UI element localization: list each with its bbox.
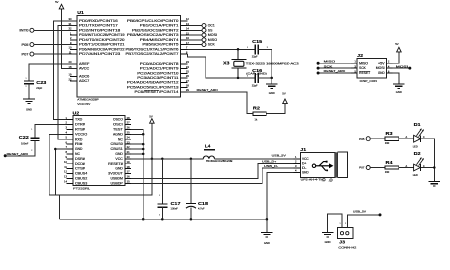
svg-text:MISO: MISO: [208, 38, 218, 42]
svg-text:USBDP: USBDP: [111, 181, 124, 185]
wire U1 PD0/RXD to U2 TXD: [54, 21, 78, 120]
junction C18 top: [190, 158, 193, 161]
svg-text:D+: D+: [302, 161, 307, 165]
wire R4 to D2 anode: [399, 167, 414, 169]
svg-text:RESET: RESET: [359, 71, 370, 75]
junction AGND: [142, 133, 145, 136]
terminal P05 (right): [359, 137, 370, 141]
svg-text:20: 20: [127, 155, 130, 159]
svg-text:17: 17: [127, 170, 130, 174]
svg-text:INT0: INT0: [19, 29, 28, 33]
svg-text:28: 28: [127, 116, 130, 120]
svg-text:VCC: VCC: [115, 157, 123, 161]
connector J3 CONN-H2: [338, 223, 357, 250]
svg-text:PB6/TOSC1/XTAL1/PCINT6: PB6/TOSC1/XTAL1/PCINT6: [126, 47, 179, 51]
svg-text:PB1/OC1A/PCINT1: PB1/OC1A/PCINT1: [140, 24, 179, 28]
wire C22 to RESET_ARD net: [5, 141, 35, 156]
capacitor C17: [157, 159, 181, 219]
svg-text:USB_D+: USB_D+: [262, 159, 277, 163]
svg-text:CBUS1: CBUS1: [111, 147, 123, 151]
svg-text:C18: C18: [198, 201, 209, 206]
USB icon (J1): [312, 161, 333, 172]
wire J3 pin1 to ground: [328, 214, 342, 233]
svg-text:22: 22: [69, 77, 72, 81]
svg-text:GND: GND: [396, 90, 402, 94]
svg-text:J2: J2: [357, 53, 364, 58]
svg-text:12: 12: [186, 17, 189, 21]
svg-text:18: 18: [127, 165, 130, 169]
svg-text:P07: P07: [359, 166, 365, 170]
svg-text:2: 2: [31, 150, 32, 152]
junction U2 GND pin7: [54, 148, 57, 151]
wire U1 to terminal MISO: [188, 39, 203, 41]
terminal MISO: [202, 38, 218, 42]
wire U1 to terminal SS: [188, 29, 203, 31]
svg-text:27: 27: [186, 79, 189, 83]
svg-text:PD3/INT1/OC2B/PCINT19: PD3/INT1/OC2B/PCINT19: [79, 33, 125, 37]
svg-text:CONN-H2: CONN-H2: [338, 246, 357, 250]
svg-text:1: 1: [25, 78, 26, 80]
svg-text:25: 25: [186, 70, 189, 74]
svg-text:2: 2: [345, 223, 346, 225]
svg-text:R4: R4: [386, 160, 394, 165]
svg-text:USB_D-: USB_D-: [264, 164, 278, 168]
terminal MOSI: [202, 33, 217, 37]
inductor L4: [203, 144, 215, 159]
resistor R3: [385, 131, 399, 145]
LED D1: [413, 122, 424, 148]
resistor R2: [253, 105, 266, 121]
wire U2 VCCIO to 5V rail: [49, 134, 152, 195]
wire LED cathode bus: [433, 139, 435, 182]
svg-text:PC2/ADC2/PCINT10: PC2/ADC2/PCINT10: [137, 71, 178, 75]
wire U2 DTR# to C22: [35, 125, 67, 139]
svg-text:GND: GND: [378, 71, 385, 75]
node USB_5V (J3): [379, 213, 382, 216]
svg-text:ICSP_CON: ICSP_CON: [360, 79, 377, 83]
svg-text:MISO: MISO: [324, 59, 336, 63]
wire ground rail: [59, 218, 267, 220]
svg-text:PB0/ICP1/CLKO/PCINT0: PB0/ICP1/CLKO/PCINT0: [127, 19, 179, 23]
wire C15 to crystal ground: [258, 49, 272, 78]
wire U1 PD1/TXD to U2 RXD: [58, 26, 77, 140]
ground (main rail): [261, 232, 273, 245]
svg-text:PC6/RESET/PCINT14: PC6/RESET/PCINT14: [135, 90, 179, 94]
svg-text:26: 26: [186, 74, 189, 78]
svg-text:ATMEGA328P: ATMEGA328P: [77, 98, 98, 102]
svg-text:PC5/ADC5/SCL/PCINT13: PC5/ADC5/SCL/PCINT13: [127, 85, 179, 89]
terminal OC1: [202, 24, 215, 28]
svg-text:4.7uF: 4.7uF: [198, 207, 205, 211]
svg-text:SCK: SCK: [359, 66, 366, 70]
svg-text:PD4/T0/XCK/PCINT20: PD4/T0/XCK/PCINT20: [79, 38, 125, 42]
ground (J2): [393, 84, 405, 94]
svg-text:RI#: RI#: [75, 142, 83, 146]
svg-text:U1: U1: [77, 10, 84, 15]
wire P05 to U1 PD5: [34, 44, 77, 46]
junction LED cathodes: [433, 166, 436, 169]
svg-text:GND: GND: [115, 152, 123, 156]
wire C16 to crystal ground: [258, 77, 272, 79]
svg-text:SCK: SCK: [208, 43, 216, 47]
svg-text:ADC7: ADC7: [79, 79, 90, 83]
terminal P05: [22, 43, 34, 47]
shield pad G2 (J1): [329, 179, 333, 183]
svg-text:AREF: AREF: [79, 62, 89, 66]
ground (crystal): [266, 84, 278, 95]
node MOSI: [408, 67, 411, 70]
svg-text:C15: C15: [252, 39, 263, 44]
svg-text:19: 19: [69, 73, 72, 77]
svg-text:24: 24: [127, 135, 130, 139]
svg-text:R3: R3: [386, 131, 394, 136]
wire P05 to R3: [370, 138, 385, 140]
svg-text:10: 10: [69, 46, 72, 50]
wire SCK net (J2): [318, 67, 351, 69]
svg-text:22pF: 22pF: [252, 84, 258, 88]
svg-text:3V3OUT: 3V3OUT: [108, 172, 123, 176]
svg-text:330: 330: [385, 141, 390, 145]
wire P07 to U1 PD7: [34, 53, 77, 55]
svg-text:VCC: VCC: [302, 157, 309, 161]
svg-text:LED: LED: [413, 173, 418, 177]
junction GND21: [142, 153, 145, 156]
svg-text:RESET#: RESET#: [108, 162, 123, 166]
svg-text:P07: P07: [22, 52, 29, 56]
svg-text:22pF: 22pF: [252, 55, 258, 59]
svg-text:10: 10: [64, 160, 67, 164]
junction XTAL1-crystal: [237, 48, 240, 51]
wire RESET_ARD net (J2): [318, 72, 351, 74]
svg-text:L4: L4: [205, 144, 211, 149]
svg-text:13: 13: [64, 175, 67, 179]
svg-text:X3: X3: [223, 60, 230, 65]
svg-text:GND: GND: [302, 170, 309, 174]
wire J3 pin2 USB_5V: [347, 215, 380, 228]
svg-text:PD7/AIN1/PCINT23: PD7/AIN1/PCINT23: [79, 52, 121, 56]
svg-text:ADC6: ADC6: [79, 75, 90, 79]
wire INT0 to U1 PD2: [34, 29, 77, 31]
svg-text:USB_5V: USB_5V: [272, 153, 286, 157]
wire U1 to terminal MOSI: [188, 34, 203, 36]
junction XTAL2-crystal: [237, 77, 240, 80]
svg-text:2: 2: [25, 86, 26, 88]
svg-text:AVCC: AVCC: [79, 67, 90, 71]
crystal X3: [223, 49, 246, 78]
wire U2 TEST/AGND/CBUS/GND bus: [131, 129, 143, 219]
junction 5V/VCC rail: [151, 158, 154, 161]
wire 5V to J2 +5V: [393, 53, 399, 63]
svg-text:14: 14: [64, 180, 67, 184]
svg-text:CTS#: CTS#: [75, 167, 85, 171]
svg-text:23: 23: [127, 140, 130, 144]
svg-text:D1: D1: [414, 122, 422, 127]
junction CBUS0: [142, 143, 145, 146]
wire MOSI net (J2): [393, 67, 410, 69]
wire J2 GND: [393, 73, 399, 84]
svg-text:J1: J1: [300, 147, 307, 152]
wire USB_5V (L4 to J1 VCC): [215, 158, 294, 160]
svg-text:PD0/RXD/PCINT16: PD0/RXD/PCINT16: [79, 19, 118, 23]
LED D2: [413, 151, 424, 177]
svg-text:15: 15: [127, 180, 130, 184]
svg-text:MOSI: MOSI: [396, 64, 409, 68]
svg-text:AGND: AGND: [113, 132, 123, 136]
svg-text:P05: P05: [359, 137, 365, 141]
svg-text:24: 24: [186, 65, 189, 69]
svg-text:TEST: TEST: [113, 128, 123, 132]
svg-text:PC4/ADC4/SDA/PCINT12: PC4/ADC4/SDA/PCINT12: [127, 81, 179, 85]
wire D2 cathode: [421, 167, 434, 169]
capacitor C18 (polarized): [186, 159, 209, 219]
wire 5V down to VCC rail: [151, 124, 153, 159]
svg-text:16: 16: [127, 175, 130, 179]
junction ground bus / rail: [142, 218, 145, 221]
wire C23 to ground: [28, 84, 30, 99]
svg-text:MOSI: MOSI: [376, 66, 385, 70]
wire VCC rail (U2 VCC to L4): [131, 158, 203, 160]
ground (C23): [23, 99, 35, 111]
svg-text:RXD: RXD: [75, 137, 83, 141]
ground (LEDs): [429, 182, 441, 186]
svg-text:1: 1: [159, 195, 160, 197]
svg-text:G: G: [322, 181, 324, 183]
svg-text:RESET_ARD: RESET_ARD: [197, 88, 218, 92]
wire 5V to R2: [266, 105, 285, 114]
svg-text:CBUS2: CBUS2: [75, 177, 87, 181]
wire XTAL2 (U1 PB7 to C16): [188, 54, 256, 78]
svg-text:C22: C22: [19, 135, 30, 140]
wire R3 to D1 anode: [399, 138, 414, 140]
svg-text:1: 1: [31, 129, 32, 131]
ground (J3): [322, 232, 334, 244]
svg-text:D2: D2: [414, 151, 422, 156]
svg-text:28: 28: [186, 84, 189, 88]
svg-text:21: 21: [127, 150, 130, 154]
svg-text:PD6/AIN0/OC0A/PCINT22: PD6/AIN0/OC0A/PCINT22: [79, 47, 125, 51]
svg-text:D-: D-: [302, 166, 306, 170]
svg-text:R2: R2: [253, 105, 261, 110]
connector J2 ICSP_CON: [351, 53, 393, 83]
junction CBUS1: [142, 148, 145, 151]
IC U1 ATMEGA328P: [69, 10, 190, 106]
svg-text:PB4/MISO/PCINT4: PB4/MISO/PCINT4: [140, 38, 179, 42]
node RESET_ARD (left): [4, 154, 7, 157]
svg-text:26: 26: [127, 126, 130, 130]
power 5V (U2 VCC): [149, 114, 154, 124]
svg-text:PC1/ADC1/PCINT9: PC1/ADC1/PCINT9: [140, 67, 179, 71]
capacitor C23: [24, 78, 47, 90]
svg-text:GND: GND: [115, 167, 123, 171]
junction crystal ground: [270, 77, 273, 80]
wire U2 GND (pin7) down: [55, 149, 66, 195]
svg-text:UP2-AH-4-TH: UP2-AH-4-TH: [301, 178, 324, 182]
wire U2 AGND stub: [131, 133, 143, 135]
wire 5V to U1 AVCC: [62, 10, 78, 69]
terminal SS: [202, 28, 212, 32]
svg-text:PD5/T1/OC0B/PCINT21: PD5/T1/OC0B/PCINT21: [79, 43, 125, 47]
svg-text:2: 2: [159, 214, 160, 216]
connector J1 USB: [293, 147, 347, 182]
wire P07 to R4: [370, 167, 385, 169]
svg-text:PB5/SCK/PCINT5: PB5/SCK/PCINT5: [142, 43, 178, 47]
svg-text:FT232RL: FT232RL: [73, 186, 90, 190]
capacitor C15: [247, 39, 269, 59]
wire J1 GND to ground rail: [267, 172, 293, 232]
svg-text:TSX-3225 16000MF0Z-AC3: TSX-3225 16000MF0Z-AC3: [246, 61, 300, 65]
svg-text:DCD#: DCD#: [75, 162, 85, 166]
node SCK: [317, 67, 320, 70]
svg-text:100nF: 100nF: [171, 207, 179, 211]
svg-text:TXD: TXD: [75, 118, 83, 122]
junction C17 bottom: [161, 218, 164, 221]
wire U1 to terminal OC1: [188, 25, 203, 27]
svg-text:+5V: +5V: [378, 61, 386, 65]
svg-text:GND: GND: [325, 240, 331, 244]
wire U2 CBUS1 stub: [131, 148, 143, 150]
svg-text:PD2/INT0/PCINT18: PD2/INT0/PCINT18: [79, 28, 121, 32]
junction ground rail right end: [266, 218, 269, 221]
svg-text:C: C: [423, 136, 425, 139]
svg-text:NC: NC: [75, 152, 81, 156]
svg-text:PC3/ADC3/PCINT11: PC3/ADC3/PCINT11: [137, 76, 178, 80]
junction C17 top: [161, 158, 164, 161]
svg-text:RESET_ARD: RESET_ARD: [7, 152, 29, 156]
svg-text:OSCO: OSCO: [113, 118, 123, 122]
svg-text:CBUS4: CBUS4: [75, 172, 87, 176]
svg-text:100nF: 100nF: [21, 141, 29, 145]
power 5V (R2 pullup): [282, 92, 287, 105]
svg-text:VCC=5V: VCC=5V: [77, 102, 91, 106]
capacitor C16: [247, 68, 263, 88]
wire USB_D- (J1 D- to U2 USBDP): [131, 168, 293, 184]
svg-text:MOSI: MOSI: [208, 33, 217, 37]
wire to GND (crystal): [271, 78, 273, 84]
wire U2 CBUS0 stub: [131, 143, 143, 145]
svg-text:25: 25: [127, 131, 130, 135]
svg-text:19: 19: [127, 160, 130, 164]
svg-text:RESET_ARD: RESET_ARD: [324, 69, 346, 73]
svg-text:OSCI: OSCI: [113, 123, 123, 127]
svg-text:OC1: OC1: [208, 24, 215, 28]
resistor R4: [385, 160, 399, 174]
svg-text:NC: NC: [118, 137, 124, 141]
node RESET_ARD (J2): [317, 72, 320, 75]
svg-text:GND: GND: [269, 91, 275, 95]
svg-text:PC0/ADC0/PCINT8: PC0/ADC0/PCINT8: [140, 62, 179, 66]
svg-text:USBDM: USBDM: [111, 177, 124, 181]
svg-text:LED: LED: [413, 144, 418, 148]
svg-text:PB2/SS/OC1B/PCINT2: PB2/SS/OC1B/PCINT2: [132, 28, 179, 32]
wire XTAL1 (U1 PB6 to C15): [188, 48, 256, 50]
terminal P07 (right): [359, 166, 370, 170]
svg-text:PB7/TOSC2/XTAL2/PCINT7: PB7/TOSC2/XTAL2/PCINT7: [126, 52, 179, 56]
svg-text:5V: 5V: [282, 92, 286, 96]
svg-text:23: 23: [186, 60, 189, 64]
power 5V (top): [55, 0, 64, 10]
wire RESET_ARD (U1 PC6 to R2): [188, 92, 253, 114]
svg-text:GND: GND: [26, 107, 32, 111]
svg-text:1: 1: [340, 223, 341, 225]
svg-text:P05: P05: [22, 43, 29, 47]
svg-text:PB3/MOSI/OC2A/PCINT3: PB3/MOSI/OC2A/PCINT3: [127, 33, 179, 37]
IC U2 FT232RL: [64, 110, 131, 190]
wire U1 AREF to C23: [29, 64, 77, 81]
wire ground rail riser: [58, 195, 60, 219]
svg-text:CBUS3: CBUS3: [75, 181, 87, 185]
terminal SCK: [202, 43, 216, 47]
svg-text:C16: C16: [252, 68, 263, 73]
terminal P07: [22, 52, 34, 56]
wire D1 cathode: [421, 138, 434, 140]
svg-text:USB_5V: USB_5V: [353, 210, 366, 214]
svg-text:MISO: MISO: [359, 61, 368, 65]
svg-text:C17: C17: [171, 201, 182, 206]
power 5V (J2): [395, 42, 401, 53]
svg-text:PD1/TXD/PCINT17: PD1/TXD/PCINT17: [79, 24, 118, 28]
svg-text:U2: U2: [73, 110, 80, 115]
node MISO: [317, 62, 320, 65]
svg-text:SCK: SCK: [324, 64, 333, 68]
wire U2 GND21 stub: [131, 153, 143, 155]
shield pad G1 (J1): [322, 179, 326, 183]
svg-text:22: 22: [127, 145, 130, 149]
svg-text:330: 330: [385, 170, 390, 174]
svg-text:RTS#: RTS#: [75, 128, 85, 132]
wire U1 to terminal SCK: [188, 44, 203, 46]
svg-text:CBUS0: CBUS0: [111, 142, 123, 146]
svg-text:C: C: [423, 165, 425, 168]
svg-text:HF30ACC2B1209: HF30ACC2B1209: [206, 160, 233, 163]
svg-text:27: 27: [127, 121, 130, 125]
svg-text:GND: GND: [75, 147, 83, 151]
terminal INT0: [19, 28, 34, 32]
svg-text:5V: 5V: [55, 0, 59, 4]
svg-text:5V: 5V: [395, 42, 399, 46]
svg-text:SS: SS: [208, 28, 213, 32]
capacitor C22: [19, 129, 40, 152]
svg-text:DTR#: DTR#: [75, 123, 85, 127]
svg-text:J3: J3: [339, 239, 346, 244]
svg-text:5V: 5V: [149, 114, 153, 118]
svg-text:DSR#: DSR#: [75, 157, 85, 161]
svg-text:22pF: 22pF: [36, 86, 42, 90]
svg-text:C23: C23: [36, 80, 47, 85]
wire USB_D+ (J1 D+ to U2 USBDM): [131, 163, 293, 178]
wire MISO net (J2): [318, 62, 351, 64]
svg-text:GND: GND: [264, 241, 270, 245]
svg-text:12: 12: [64, 170, 67, 174]
junction C18 bottom: [190, 218, 193, 221]
svg-text:VCCIO: VCCIO: [75, 132, 88, 136]
svg-text:G: G: [329, 181, 331, 183]
